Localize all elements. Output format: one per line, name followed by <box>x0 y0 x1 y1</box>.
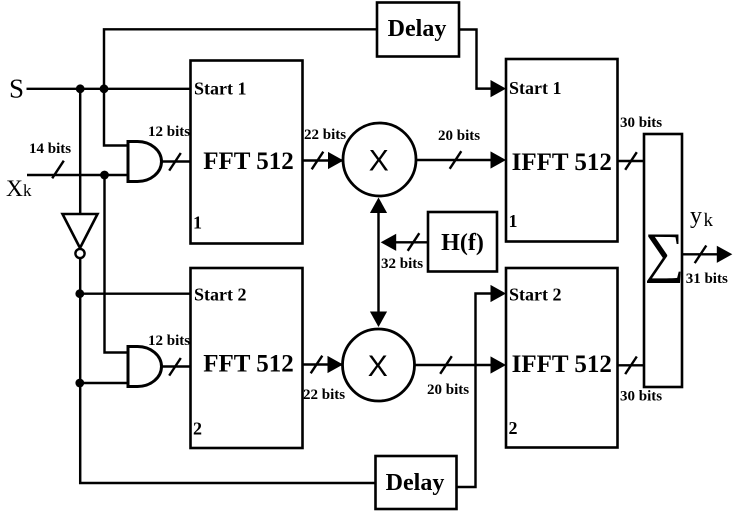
multiplier M2 <box>343 329 415 401</box>
slash 12 bits row2 <box>169 358 181 376</box>
svg-text:Start 1: Start 1 <box>194 79 247 99</box>
wire AND1 output <box>162 160 191 162</box>
wire H(f) output to coefficient bus <box>396 241 428 243</box>
wire S branch up to delay D1 <box>104 29 377 89</box>
svg-text:Delay: Delay <box>386 470 445 496</box>
wire Xk input line <box>27 174 128 176</box>
svg-text:22 bits: 22 bits <box>304 127 346 143</box>
delay D1 <box>377 3 459 57</box>
wire D2 output to IFFT2 start <box>457 294 493 488</box>
svg-text:20 bits: 20 bits <box>438 128 480 144</box>
svg-text:30 bits: 30 bits <box>620 389 662 405</box>
wire coefficient bus vertical to both multipliers <box>377 210 379 313</box>
wire I1 output to summation <box>618 160 645 162</box>
svg-text:22 bits: 22 bits <box>303 387 345 403</box>
wire inverted-S vertical down to bottom delay <box>80 259 375 484</box>
svg-text:Delay: Delay <box>388 16 447 42</box>
svg-text:12 bits: 12 bits <box>148 124 190 140</box>
wire S input line <box>27 88 191 90</box>
wire F1 output to M1 <box>303 159 344 161</box>
svg-text:X: X <box>369 145 389 178</box>
wire D1 output to IFFT1 start <box>459 30 492 89</box>
wire I2 output to summation <box>618 364 645 366</box>
delay D2 <box>376 456 457 509</box>
inverter U1 <box>63 214 98 248</box>
svg-text:S: S <box>9 74 24 104</box>
ifft block I2 <box>506 268 618 448</box>
wire AND2 output <box>162 365 191 367</box>
fft block F2 <box>191 268 303 448</box>
summation block <box>644 134 682 387</box>
svg-text:IFFT 512: IFFT 512 <box>512 149 612 176</box>
slash 12 bits row1 <box>169 153 181 171</box>
svg-text:14 bits: 14 bits <box>29 141 71 157</box>
svg-text:2: 2 <box>509 418 518 438</box>
wire inverted-S to AND2 bottom input <box>80 382 128 384</box>
wire S branch down to AND1 top input <box>104 89 128 146</box>
svg-text:IFFT 512: IFFT 512 <box>512 351 612 378</box>
wire Xk branch to AND2 top input <box>105 175 129 353</box>
slash 14 bits <box>52 161 64 179</box>
junction dot inverted-S to FFT2 start <box>75 289 84 298</box>
svg-text:FFT 512: FFT 512 <box>203 148 294 175</box>
wire M2 output to IFFT2 <box>415 364 493 366</box>
svg-text:1: 1 <box>509 211 518 231</box>
and-gate A1 <box>128 142 161 182</box>
wire S branch down to inverter <box>79 89 81 214</box>
junction dot S-line 1 <box>76 84 85 93</box>
svg-text:Start 2: Start 2 <box>194 285 247 305</box>
wire M1 output to IFFT1 <box>416 159 492 161</box>
svg-text:FFT 512: FFT 512 <box>203 351 294 378</box>
junction dot inverted-S to AND2 <box>75 379 84 388</box>
ifft block I1 <box>506 59 618 242</box>
svg-text:Start 1: Start 1 <box>509 78 562 98</box>
wire summation output yk <box>682 253 717 255</box>
svg-text:∑: ∑ <box>645 222 685 284</box>
fft block F1 <box>191 61 303 244</box>
svg-text:30 bits: 30 bits <box>620 115 662 131</box>
junction dot Xk <box>100 171 109 180</box>
hf coefficient block H(f) <box>428 212 497 272</box>
svg-text:1: 1 <box>193 213 202 233</box>
svg-text:12 bits: 12 bits <box>148 333 190 349</box>
multiplier M1 <box>343 123 416 196</box>
svg-text:H(f): H(f) <box>441 230 484 256</box>
svg-text:31 bits: 31 bits <box>686 271 728 287</box>
svg-text:2: 2 <box>193 419 202 439</box>
wire inverted-S to FFT2 start2 <box>80 292 191 294</box>
svg-text:Start 2: Start 2 <box>509 285 562 305</box>
svg-text:X: X <box>368 350 388 383</box>
wire F2 output to M2 <box>303 363 344 365</box>
and-gate A2 <box>128 347 162 387</box>
junction dot S-line 2 <box>100 84 109 93</box>
svg-text:20 bits: 20 bits <box>427 382 469 398</box>
svg-text:32 bits: 32 bits <box>381 256 423 272</box>
